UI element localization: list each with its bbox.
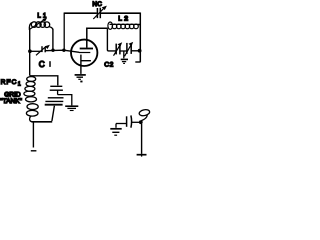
svg-text:1: 1 [43,12,47,19]
wire between C2 sections [120,50,127,52]
wire stem between capacitors [57,90,59,95]
node dot left rail / grid [28,49,32,53]
node dot B+ [139,120,143,124]
tube plate bar [80,48,93,50]
terminal dash bias [31,150,37,152]
svg-text:NC: NC [92,1,102,8]
wire top horizontal left segment (grid top to NC) [64,12,97,14]
capacitor bypass [127,115,132,127]
wire right rail end hook [135,61,140,63]
inductor L1 [29,22,52,31]
wire top horizontal right segment (NC to right rail) [100,12,140,14]
wire grid lead horizontal [30,50,42,52]
capacitor C1 [36,45,50,56]
wire L2 left drop [107,28,116,51]
svg-text:"TANK": "TANK" [0,98,22,105]
tube cathode [80,55,82,74]
wire grid tank top rail [30,76,58,86]
capacitor NC [93,6,107,19]
node dot riser / grid [62,49,65,52]
wire grid tank bottom rail [32,121,53,123]
wire bias stub [32,122,34,148]
svg-text:2: 2 [124,16,128,23]
wire branch to ground [58,95,72,101]
capacitor C2 section B [125,42,134,56]
terminal bar B+ [137,154,147,156]
svg-text:RFC: RFC [1,79,18,86]
node dot right tank rail / grid [51,49,54,52]
ground grid tank midpoint [65,101,78,111]
svg-text:2: 2 [110,62,114,69]
svg-text:L: L [118,16,122,23]
svg-text:C: C [104,62,109,69]
wire vertical grid-top riser [63,13,65,51]
wire capacitor to bottom rail [52,106,55,121]
wire right tank rail [52,29,54,50]
inductor RFC1 coil [24,77,38,117]
tube grid bar [79,52,90,54]
wire ground to capacitor [116,123,127,125]
ground bottom right [110,124,121,136]
svg-text:1: 1 [18,81,21,87]
capacitor grid tank upper [50,86,63,90]
tube plate lead and wire to L2 [87,28,108,47]
wire B+ down [141,124,143,154]
capacitor C2 section A [114,42,123,55]
wire left tank rail [29,30,31,76]
capacitor grid tank lower [45,98,64,105]
op-amp tube V1 envelope [71,40,97,66]
arrow of L1 (variable) [29,18,47,30]
ground C2 rotor [121,51,128,63]
svg-text:C: C [39,60,45,69]
ground cathode [75,75,86,83]
wire capacitor to node [132,121,140,123]
inductor L2 [108,22,140,29]
wire coil bottom to rail [30,116,32,122]
pigtail lead loop [139,109,151,121]
node dot plate tank [138,49,142,53]
wire right rail [139,13,141,62]
svg-text:L: L [37,12,41,19]
wire C2 to right rail [131,50,138,52]
wire grid lead to tube [45,50,79,52]
